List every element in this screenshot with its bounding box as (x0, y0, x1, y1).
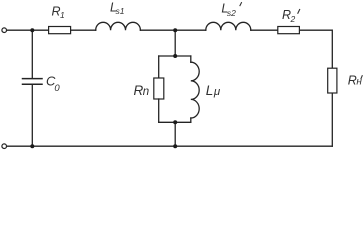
node dot bottom-left (30, 144, 34, 148)
inductor Lmu bottom lead (190, 118, 192, 122)
node dot top-left (30, 28, 34, 32)
node dot top middle (173, 28, 177, 32)
inductor Lmu coil (191, 62, 199, 118)
svg-text:Rн: Rн (348, 74, 363, 88)
svg-text:Lμ: Lμ (206, 83, 221, 98)
resistor RH' (328, 68, 337, 93)
node dot shunt bottom (173, 120, 177, 124)
node dot bottom middle (173, 144, 177, 148)
label Ls2 prime tick (240, 2, 242, 6)
inductor Ls2' (206, 22, 251, 30)
shunt branch vertical top (174, 30, 176, 56)
wire top: R1 to Ls1 (71, 29, 96, 31)
wire top: terminal to R1 (7, 29, 49, 31)
resistor Rn top lead (158, 56, 160, 78)
wire top: Ls2' to R2' (251, 29, 278, 31)
capacitor C0 branch wire bottom (31, 85, 33, 146)
wire top right + right side down to RH' (299, 30, 332, 68)
inductor Lmu top lead (190, 56, 192, 62)
wire top: Ls1 to Ls2' (140, 29, 205, 31)
label RH prime tick (361, 75, 363, 79)
node dot shunt top (173, 54, 177, 58)
svg-text:Ls1: Ls1 (110, 0, 125, 16)
resistor Rn (154, 78, 164, 99)
wire bottom (7, 145, 332, 147)
svg-text:R1: R1 (52, 5, 66, 21)
inductor Ls1 (96, 22, 141, 30)
resistor Rn bottom lead (158, 99, 160, 122)
svg-text:R2: R2 (282, 8, 296, 24)
resistor R2' (278, 27, 300, 34)
terminal input top (2, 28, 7, 33)
capacitor C0 plates (23, 78, 43, 80)
label R2 prime tick (298, 9, 300, 14)
shunt bottom bar (159, 121, 191, 123)
wire right: RH' to bottom (331, 93, 333, 146)
shunt branch vertical bottom (174, 122, 176, 146)
resistor R1 (49, 27, 71, 34)
svg-text:Rn: Rn (134, 83, 150, 98)
shunt top bar (159, 55, 191, 57)
capacitor C0 branch wire top (31, 30, 33, 78)
terminal input bottom (2, 144, 7, 149)
svg-text:C0: C0 (46, 74, 60, 95)
svg-text:Ls2: Ls2 (221, 1, 236, 17)
